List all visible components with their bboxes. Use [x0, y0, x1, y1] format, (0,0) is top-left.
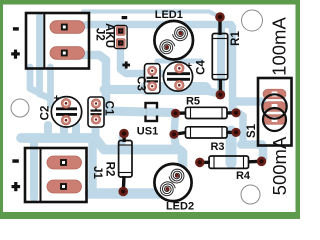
wire: ribbon 3 under J2 to C2 top [47, 67, 54, 105]
wire: band tail to R1 bottom pad [203, 90, 219, 94]
wire: band Y1 above J1 [21, 133, 95, 143]
capacitor C3 [145, 64, 161, 94]
LED LED1 [154, 21, 193, 60]
capacitor C1 [88, 97, 104, 127]
wire: branch B1 to C3 bottom pad [104, 85, 150, 94]
svg-text:500mA: 500mA [269, 136, 290, 195]
label J1 minus [12, 159, 18, 163]
wire: J2 pin1 / AKU- top rail to R1 top and S1 feeder [72, 25, 243, 142]
connector J1 [25, 148, 87, 202]
svg-text:LED2: LED2 [166, 201, 194, 213]
wire: hidden stub between LED1 and C4 [157, 59, 201, 64]
label AKU minus [122, 16, 128, 19]
wire: stub C1 bottom pad to band Y1 [92, 119, 100, 138]
hole left middle [11, 99, 29, 117]
label J2 plus [11, 52, 20, 55]
wire: stub A to band Y1 [44, 125, 52, 138]
wire: wide band under C3/C4 bottom pads [146, 82, 205, 95]
svg-text:LED1: LED1 [155, 9, 183, 21]
svg-text:R2: R2 [103, 162, 115, 177]
wire: J2 left cell internal trace and corner down [40, 16, 50, 99]
svg-text:AKU: AKU [103, 23, 115, 48]
svg-text:+: + [54, 94, 60, 105]
wire: band step and Y2 to LED2 top pad [95, 138, 183, 165]
hole top right [242, 10, 263, 31]
label AKU plus [122, 64, 130, 67]
resistor R3 [169, 127, 240, 139]
wire: branch B2 to R5 left pad (under US1) [106, 111, 172, 113]
wire: stub C to band Y1 [72, 125, 80, 138]
wire: AKU+ down and over to C3/C4 top pads [121, 33, 180, 74]
wire: S1 middle pad branch [236, 97, 262, 106]
svg-text:C1: C1 [103, 101, 115, 116]
capacitor C4 [163, 61, 192, 91]
wire: ribbon stub left of J2 corner [30, 67, 37, 92]
svg-text:R5: R5 [186, 96, 200, 108]
wire: R3 left pad junction into Y2 corner [174, 136, 177, 149]
wire: J1 left cell internal trace [30, 140, 38, 198]
svg-text:J1: J1 [91, 166, 103, 179]
hole bottom right [241, 185, 260, 204]
wire: trace behind R4 body from R3 right pad [226, 131, 237, 163]
label J2 minus [13, 27, 19, 30]
svg-text:R3: R3 [210, 141, 224, 153]
IC US1 [144, 103, 159, 121]
resistor R4 [195, 156, 266, 168]
switch S1 [258, 78, 292, 146]
wire: vertical right of J1 from band Y1 to bottom band [88, 141, 97, 194]
svg-text:C2: C2 [40, 106, 52, 121]
svg-text:R4: R4 [236, 170, 251, 182]
connector J2 [26, 13, 89, 69]
wire: stub R2 top pad [119, 136, 126, 147]
svg-text:US1: US1 [137, 126, 158, 138]
resistor R2 [118, 129, 132, 197]
svg-text:R1: R1 [230, 31, 242, 46]
svg-text:+: + [186, 61, 192, 72]
wire: thin upper rail from J2 to R1 [83, 12, 216, 16]
svg-text:C3: C3 [135, 76, 147, 91]
wire: R5 left to R3 left pad [174, 114, 176, 134]
resistor R1 [212, 12, 227, 99]
capacitor C2 [51, 94, 81, 128]
connector AKU pads [114, 25, 127, 48]
svg-text:100mA: 100mA [269, 17, 290, 76]
wire: stub C2 bottom pad to band Y1 [60, 120, 68, 138]
wire: trace behind R1 body [217, 27, 225, 93]
wire: corner to R4 right pad [241, 145, 263, 159]
svg-text:C4: C4 [195, 60, 207, 75]
wire: J2 pin2 to vertical V1 [66, 55, 106, 112]
resistor R5 [171, 107, 241, 118]
label J1 plus [12, 185, 21, 188]
LED LED2 [154, 164, 191, 201]
wire: bottom band to LED2 / R2 bottom pad [90, 188, 165, 199]
svg-text:S1: S1 [246, 123, 258, 138]
